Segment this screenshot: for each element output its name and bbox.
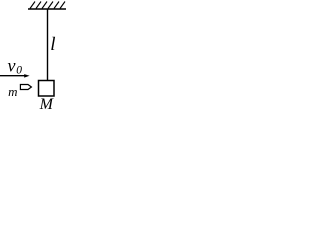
svg-text:m: m — [8, 84, 17, 99]
svg-text:M: M — [39, 96, 55, 109]
svg-text:v: v — [8, 55, 16, 75]
svg-text:0: 0 — [16, 65, 22, 77]
svg-text:l: l — [50, 34, 55, 55]
